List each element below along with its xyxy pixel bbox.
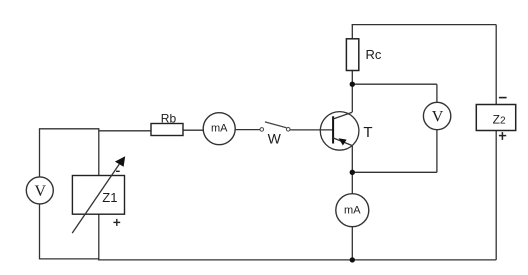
wire junction to V2: [352, 83, 437, 85]
svg-text:Rb: Rb: [161, 112, 177, 126]
svg-text:mA: mA: [211, 123, 228, 135]
variable impedance Z1: [72, 156, 125, 233]
switch W: [260, 122, 290, 131]
wire V2 bottom vertical: [436, 130, 438, 173]
node emitter junction: [350, 170, 355, 175]
wire Rc top: [351, 25, 353, 39]
minus mark Z1: [116, 170, 120, 172]
wire top-left horizontal: [39, 128, 99, 130]
wire bottom right segment: [98, 259, 496, 261]
wire right upper vertical: [495, 25, 497, 105]
resistor Rc: [346, 39, 358, 71]
resistor Rb: [151, 124, 183, 136]
wire switch to base: [290, 129, 333, 131]
wire Rb to mA1: [183, 129, 204, 131]
wire emitter junction horizontal: [352, 171, 437, 173]
wire emitter to mA2: [351, 146, 353, 194]
wire mA1 to switch: [235, 129, 260, 131]
wire Z1 bottom vertical: [98, 214, 100, 260]
wire node to Rb: [99, 130, 151, 132]
wire collector to junction: [351, 84, 353, 112]
transistor T: [320, 112, 359, 151]
svg-text:Rc: Rc: [366, 47, 382, 62]
svg-text:Z2: Z2: [493, 112, 506, 126]
svg-text:W: W: [268, 131, 282, 147]
svg-text:mA: mA: [344, 204, 361, 216]
svg-text:Z1: Z1: [102, 190, 117, 205]
plus mark Z2: [499, 132, 506, 140]
wire top horizontal: [352, 24, 497, 26]
svg-text:V: V: [432, 109, 444, 126]
voltmeter V2: [423, 102, 450, 129]
ammeter mA2: [336, 194, 369, 227]
svg-text:V: V: [35, 183, 47, 200]
wire bottom left segment: [40, 258, 99, 260]
minus mark Z2: [499, 97, 507, 99]
svg-text:T: T: [363, 124, 372, 141]
wire mA2 to bottom: [351, 227, 353, 261]
wire node to Z1 top: [98, 128, 100, 175]
node bottom junction: [350, 257, 355, 262]
node collector junction: [350, 82, 355, 87]
wire V2 top vertical: [436, 84, 438, 102]
voltmeter V1: [26, 177, 53, 204]
source Z2: [476, 105, 515, 131]
wire right lower vertical: [495, 131, 497, 260]
wire V1 bottom vertical: [39, 204, 41, 260]
wire Rc bottom: [351, 71, 353, 86]
ammeter mA1: [203, 113, 235, 145]
wire V1 top vertical: [39, 129, 41, 177]
plus mark Z1: [113, 219, 120, 226]
